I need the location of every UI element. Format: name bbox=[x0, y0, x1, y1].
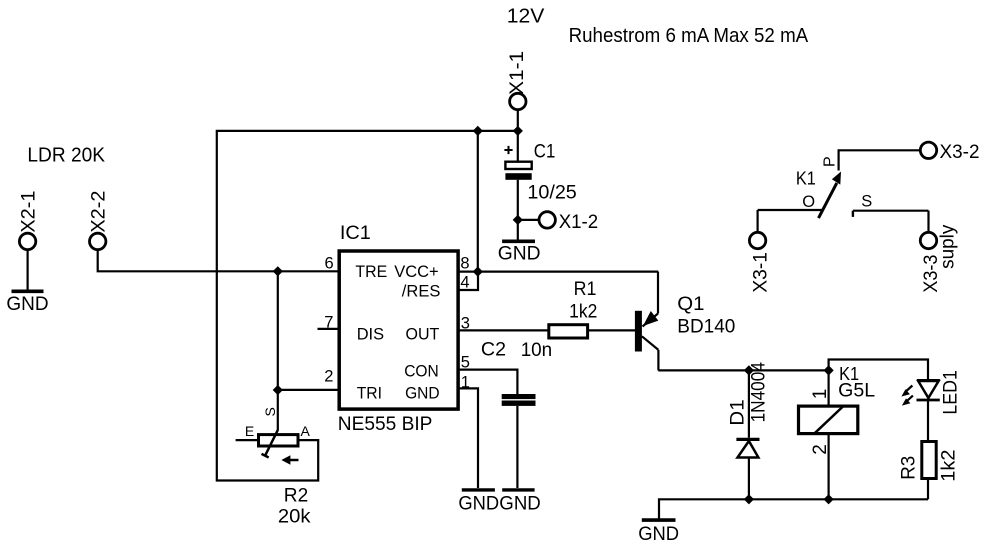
wire S to X3-3 bbox=[927, 211, 929, 233]
wire pin2 bbox=[278, 389, 339, 391]
connector X3-3 bbox=[920, 224, 958, 292]
wire pin 3 to R1 bbox=[458, 329, 548, 331]
node junction pin2/wiper bbox=[273, 385, 283, 395]
wire E stub bbox=[236, 439, 259, 441]
node junction D1 top bbox=[744, 365, 754, 375]
svg-text:1N4004: 1N4004 bbox=[749, 362, 770, 423]
svg-text:Ruhestrom 6 mA Max 52 mA: Ruhestrom 6 mA Max 52 mA bbox=[569, 25, 809, 47]
svg-text:TRI: TRI bbox=[357, 385, 382, 403]
wire X2-1 to ground bbox=[27, 250, 29, 290]
svg-text:2: 2 bbox=[324, 368, 333, 386]
svg-text:/RES: /RES bbox=[402, 283, 441, 301]
wire pin 4 bbox=[458, 272, 478, 290]
wire pin 1 to ground bbox=[458, 388, 478, 488]
svg-text:GND: GND bbox=[6, 294, 48, 315]
wire X2-2 to IC pin 6 bbox=[98, 250, 340, 272]
wire to X1-2 bbox=[518, 219, 539, 221]
svg-text:GND: GND bbox=[458, 494, 499, 515]
svg-text:X3-2: X3-2 bbox=[940, 142, 980, 163]
svg-text:20k: 20k bbox=[278, 507, 311, 528]
connector X3-2 bbox=[920, 142, 979, 163]
pin 7 stub bbox=[318, 328, 340, 330]
wire jog K1 to LED bbox=[829, 360, 928, 381]
op-amp IC1 NE555 box bbox=[338, 223, 458, 435]
svg-text:G5L: G5L bbox=[838, 380, 875, 401]
node junction K1 bottom bbox=[824, 494, 834, 504]
wire R3 to bottom rail bbox=[927, 479, 929, 500]
svg-text:C2: C2 bbox=[481, 339, 506, 360]
wire vertical rail to pin8 junction bbox=[477, 131, 479, 272]
wire K1 pin1 bbox=[827, 370, 829, 406]
potentiometer R2 bbox=[245, 407, 311, 528]
wire collector rail to K1 bbox=[658, 369, 828, 371]
switch contact O line bbox=[758, 193, 824, 211]
wire Q1 collector down bbox=[657, 350, 659, 371]
capacitor C2 bbox=[481, 339, 552, 406]
wire X1-1 to rail bbox=[517, 110, 519, 131]
ground under C1 bbox=[498, 241, 541, 264]
connector X3-1 bbox=[749, 232, 771, 292]
svg-text:10/25: 10/25 bbox=[527, 183, 576, 204]
svg-text:DIS: DIS bbox=[357, 325, 384, 343]
diode D1 bbox=[728, 362, 770, 500]
svg-text:1k2: 1k2 bbox=[569, 302, 597, 323]
connector X2-1 bbox=[19, 191, 40, 250]
svg-text:K1: K1 bbox=[796, 168, 816, 188]
svg-text:O: O bbox=[802, 193, 815, 211]
svg-text:VCC+: VCC+ bbox=[394, 263, 439, 281]
node junction C1/X1-2/GND bbox=[513, 215, 523, 225]
wire Q1 emitter up to 12V rail bbox=[657, 272, 659, 314]
LED arrows bbox=[901, 386, 913, 406]
svg-text:P: P bbox=[822, 156, 839, 167]
svg-text:S: S bbox=[861, 192, 872, 210]
svg-text:6: 6 bbox=[325, 254, 334, 272]
svg-text:LDR 20K: LDR 20K bbox=[27, 145, 105, 167]
ground under C2 bbox=[499, 490, 541, 515]
svg-text:OUT: OUT bbox=[406, 325, 440, 343]
node junction K1 top bbox=[824, 365, 834, 375]
svg-text:NE555 BIP: NE555 BIP bbox=[338, 414, 433, 435]
svg-text:10n: 10n bbox=[521, 340, 553, 361]
wire R1 to Q1 base bbox=[589, 329, 636, 331]
ground bottom rail bbox=[638, 520, 679, 545]
ground under X2-1 bbox=[6, 291, 48, 315]
svg-text:suply: suply bbox=[938, 224, 959, 269]
connector X1-2 bbox=[539, 212, 598, 233]
svg-text:GND: GND bbox=[499, 494, 541, 515]
connector X2-2 bbox=[89, 191, 110, 250]
R2 wiper arrow bbox=[281, 455, 298, 464]
svg-text:X1-1: X1-1 bbox=[507, 51, 528, 95]
wire O to X3-1 bbox=[756, 210, 758, 232]
wire rail to C1 bbox=[517, 131, 519, 162]
node junction pin8/pin4 bbox=[473, 267, 483, 277]
wire C2 to ground bbox=[516, 406, 518, 488]
wire X3-2 to switch P bbox=[839, 150, 921, 170]
svg-text:R2: R2 bbox=[284, 486, 309, 507]
LED LED1 bbox=[917, 370, 962, 415]
svg-text:8: 8 bbox=[460, 254, 469, 272]
svg-text:LED1: LED1 bbox=[941, 370, 962, 415]
svg-text:GND: GND bbox=[405, 385, 440, 403]
resistor R1 bbox=[549, 279, 598, 338]
svg-text:S: S bbox=[262, 407, 278, 416]
svg-text:1k2: 1k2 bbox=[938, 450, 959, 482]
svg-text:Q1: Q1 bbox=[677, 294, 704, 315]
svg-text:IC1: IC1 bbox=[340, 223, 371, 244]
switch contact S line bbox=[853, 192, 929, 217]
wire pin 5 to C2 bbox=[458, 370, 517, 394]
connector X1-1 bbox=[507, 51, 528, 110]
svg-text:X2-2: X2-2 bbox=[89, 191, 110, 233]
svg-text:GND: GND bbox=[498, 243, 541, 264]
node junction top rail / pin8 vertical bbox=[473, 126, 483, 136]
svg-text:BD140: BD140 bbox=[677, 316, 735, 337]
wire left loop (top rail, left vertical, bottom to R2) bbox=[217, 131, 518, 481]
svg-text:X2-1: X2-1 bbox=[19, 191, 40, 233]
svg-text:C1: C1 bbox=[534, 141, 556, 162]
transistor Q1 BD140 bbox=[635, 294, 735, 351]
svg-text:X1-2: X1-2 bbox=[559, 212, 599, 233]
wire wiper S bbox=[277, 390, 279, 430]
svg-text:R3: R3 bbox=[899, 456, 920, 480]
node junction top rail / X1-1 / C1 bbox=[513, 126, 523, 136]
relay K1 coil bbox=[799, 364, 876, 455]
wire junction down to pin2 node bbox=[277, 271, 279, 390]
capacitor C1 bbox=[504, 141, 576, 203]
svg-text:TRE: TRE bbox=[355, 263, 387, 281]
svg-text:A: A bbox=[301, 423, 311, 439]
ground under pin 1 bbox=[458, 490, 499, 515]
node junction D1 bottom bbox=[744, 494, 754, 504]
svg-text:GND: GND bbox=[638, 524, 679, 545]
svg-text:CON: CON bbox=[404, 363, 439, 381]
resistor R3 bbox=[899, 442, 960, 482]
wire LED to R3 bbox=[927, 400, 929, 440]
svg-text:12V: 12V bbox=[507, 6, 545, 28]
svg-text:4: 4 bbox=[460, 273, 469, 291]
wire bottom rail bbox=[659, 499, 928, 518]
svg-text:X3-1: X3-1 bbox=[751, 252, 772, 293]
svg-text:R1: R1 bbox=[574, 279, 597, 300]
svg-text:E: E bbox=[245, 423, 254, 439]
wire C1 to gnd node bbox=[517, 180, 519, 240]
switch K1 contact arm bbox=[796, 156, 841, 218]
node junction X2-2/pin2 branch bbox=[273, 266, 283, 276]
wire 12V rail pin8 to Q1 emitter bbox=[458, 271, 658, 273]
svg-text:D1: D1 bbox=[728, 399, 749, 425]
wire K1 pin2 bbox=[827, 433, 829, 499]
